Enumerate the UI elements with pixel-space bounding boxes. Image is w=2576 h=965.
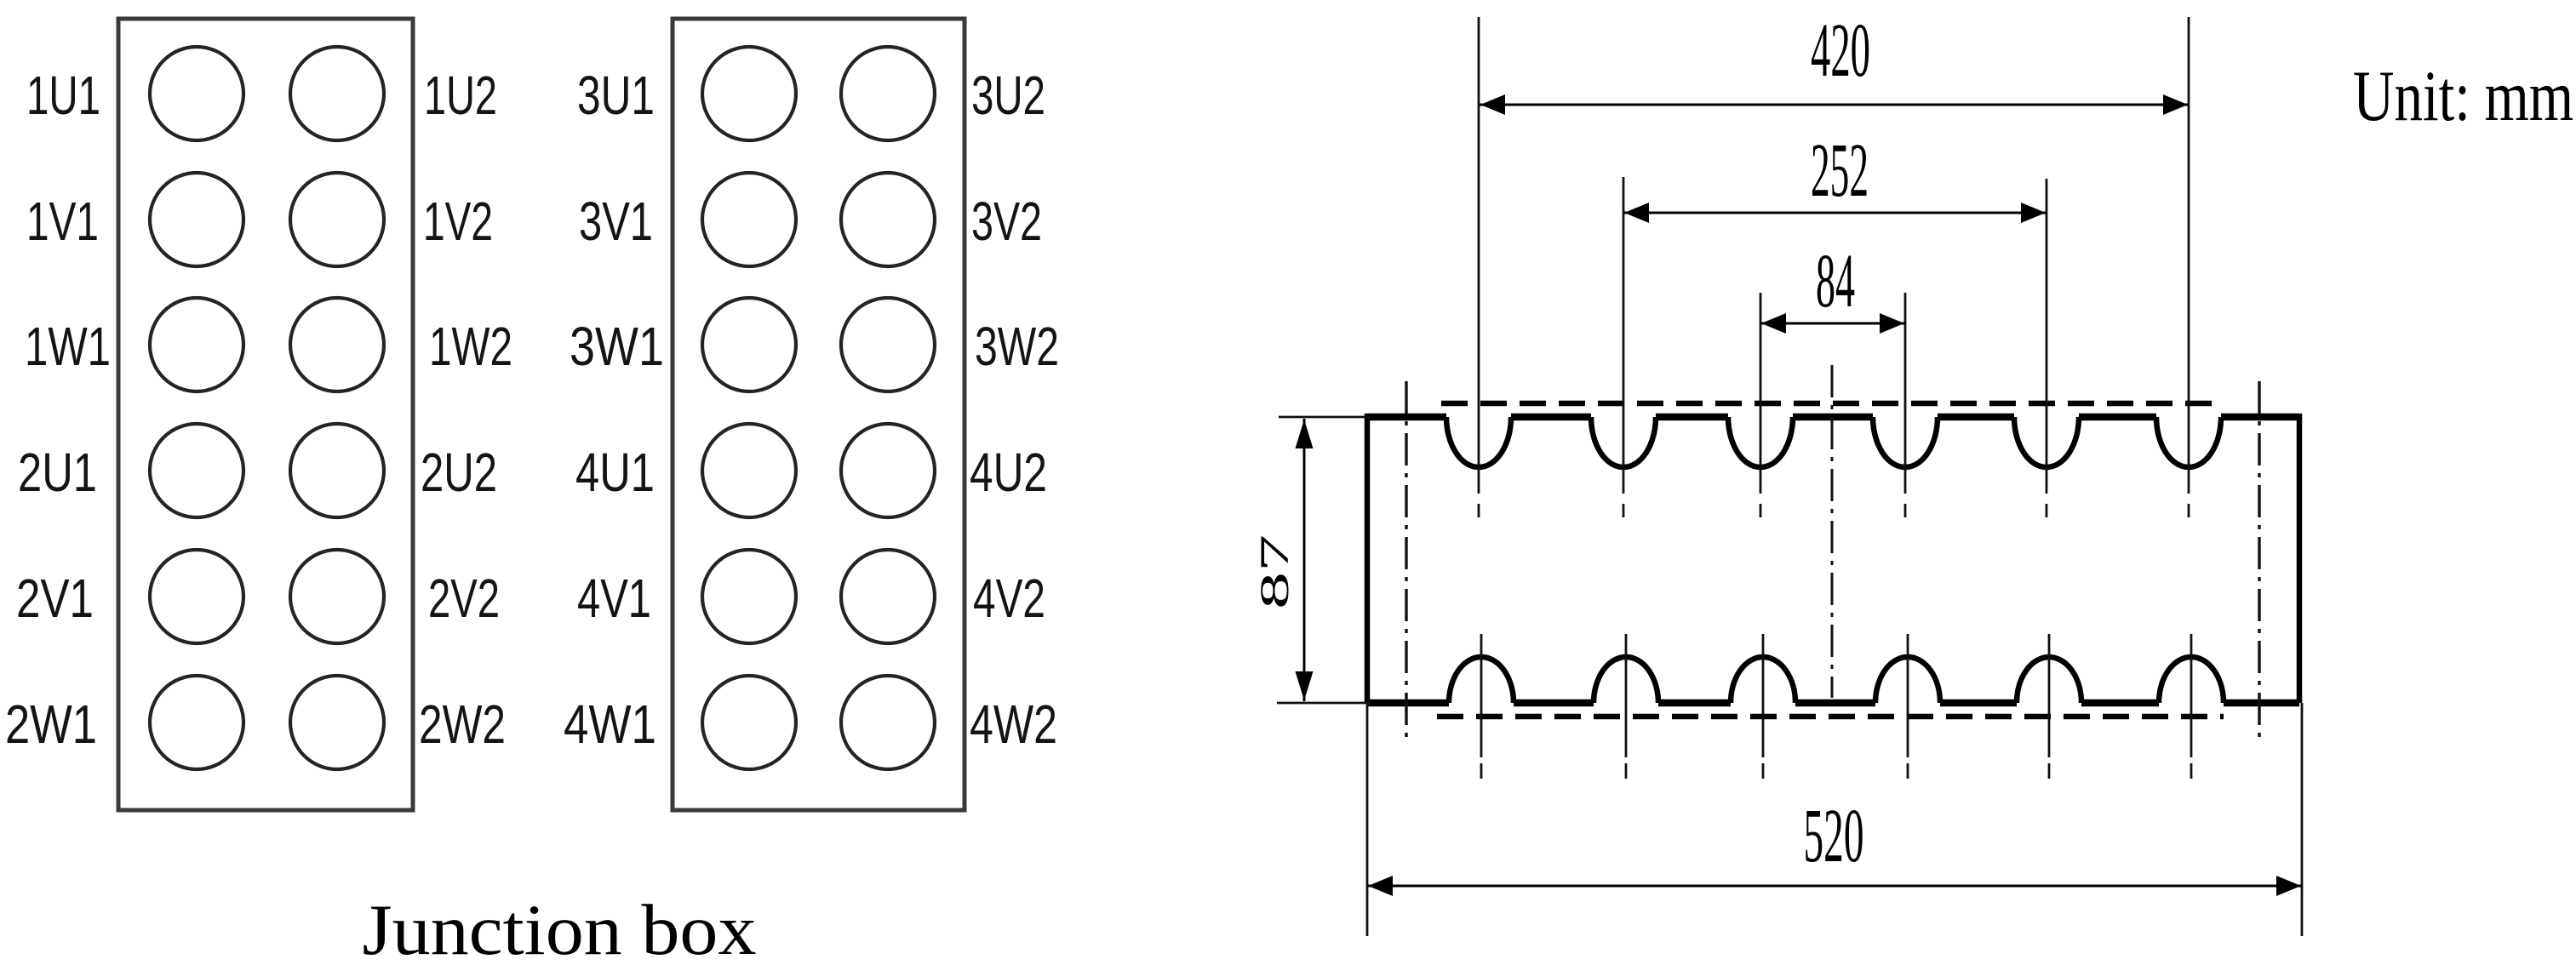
dimension 87 line — [1296, 419, 1314, 701]
bump centre lines (bottom) — [1481, 634, 2191, 779]
terminal 4W1 — [702, 676, 796, 769]
svg-text:3V2: 3V2 — [971, 191, 1042, 252]
terminal 2U1 — [150, 424, 243, 517]
terminal 4U2 — [841, 424, 935, 517]
svg-text:4U1: 4U1 — [575, 442, 655, 503]
svg-text:2V2: 2V2 — [428, 568, 500, 629]
svg-text:87: 87 — [1252, 534, 1297, 609]
junction box 1 outline — [118, 19, 413, 810]
svg-text:4W1: 4W1 — [564, 694, 656, 755]
svg-text:2U1: 2U1 — [18, 442, 97, 503]
part left edge — [1365, 414, 1371, 703]
part right edge — [2297, 414, 2303, 703]
central vertical axis (dash-dot) — [1831, 365, 1834, 698]
junction box 2 outline — [673, 19, 965, 810]
dashed top sheet line — [1441, 401, 2220, 407]
notch centre/extension lines (top) — [1479, 17, 2189, 517]
terminal 4V1 — [702, 550, 796, 643]
terminal 2V1 — [150, 550, 243, 643]
svg-text:4U2: 4U2 — [970, 442, 1047, 503]
svg-text:3U1: 3U1 — [577, 65, 655, 126]
terminal 1V2 — [290, 173, 384, 266]
dimension 520 line — [1367, 876, 2302, 896]
terminal 2W1 — [150, 676, 243, 769]
terminal 4U1 — [702, 424, 796, 517]
svg-text:1U1: 1U1 — [26, 65, 100, 126]
svg-text:2V1: 2V1 — [16, 568, 94, 629]
part top edge segments — [1367, 414, 2299, 421]
terminal 3W2 — [841, 298, 935, 391]
svg-text:4W2: 4W2 — [970, 694, 1057, 755]
terminal 3V1 — [702, 173, 796, 266]
top notch arcs — [1446, 417, 2221, 467]
svg-text:3W2: 3W2 — [975, 316, 1059, 377]
svg-text:1U2: 1U2 — [424, 65, 497, 126]
terminal 1W1 — [150, 298, 243, 391]
svg-text:252: 252 — [1811, 128, 1869, 213]
terminal 1U1 — [150, 47, 243, 140]
dashed bottom sheet line — [1437, 714, 2224, 720]
svg-text:1V1: 1V1 — [26, 191, 99, 252]
svg-text:3V1: 3V1 — [579, 191, 653, 252]
svg-text:1V2: 1V2 — [423, 191, 493, 252]
svg-text:2W2: 2W2 — [419, 694, 506, 755]
svg-text:3U2: 3U2 — [971, 65, 1045, 126]
right fold axis (dash-dot) — [2258, 381, 2260, 744]
dimension 252 line — [1623, 203, 2046, 223]
terminal 3U1 — [702, 47, 796, 140]
svg-text:2W1: 2W1 — [5, 694, 97, 755]
svg-text:Unit: mm: Unit: mm — [2353, 56, 2573, 136]
part bottom edge segments — [1367, 699, 2299, 707]
terminal 2W2 — [290, 676, 384, 769]
svg-text:4V2: 4V2 — [973, 568, 1045, 629]
terminal 3V2 — [841, 173, 935, 266]
svg-text:520: 520 — [1804, 794, 1864, 878]
dimension 420 line — [1480, 94, 2189, 115]
dimension 87 extension lines — [1277, 417, 1371, 703]
terminal 2U2 — [290, 424, 384, 517]
svg-text:420: 420 — [1811, 9, 1870, 93]
svg-text:84: 84 — [1816, 239, 1855, 323]
svg-text:1W2: 1W2 — [429, 316, 512, 377]
terminal 4W2 — [841, 676, 935, 769]
svg-text:4V1: 4V1 — [577, 568, 651, 629]
terminal 1W2 — [290, 298, 384, 391]
svg-text:Junction box: Junction box — [363, 890, 757, 965]
terminal 3U2 — [841, 47, 935, 140]
terminal 1V1 — [150, 173, 243, 266]
terminal 3W1 — [702, 298, 796, 391]
left fold axis (dash-dot) — [1405, 381, 1407, 744]
svg-text:3W1: 3W1 — [570, 316, 664, 377]
terminal 1U2 — [290, 47, 384, 140]
terminal 2V2 — [290, 550, 384, 643]
terminal 4V2 — [841, 550, 935, 643]
svg-text:1W1: 1W1 — [25, 316, 111, 377]
svg-text:2U2: 2U2 — [421, 442, 497, 503]
dimension 520 extension lines — [1367, 703, 2302, 936]
dimension 84 line — [1760, 313, 1905, 334]
bottom bump arcs — [1449, 657, 2224, 703]
